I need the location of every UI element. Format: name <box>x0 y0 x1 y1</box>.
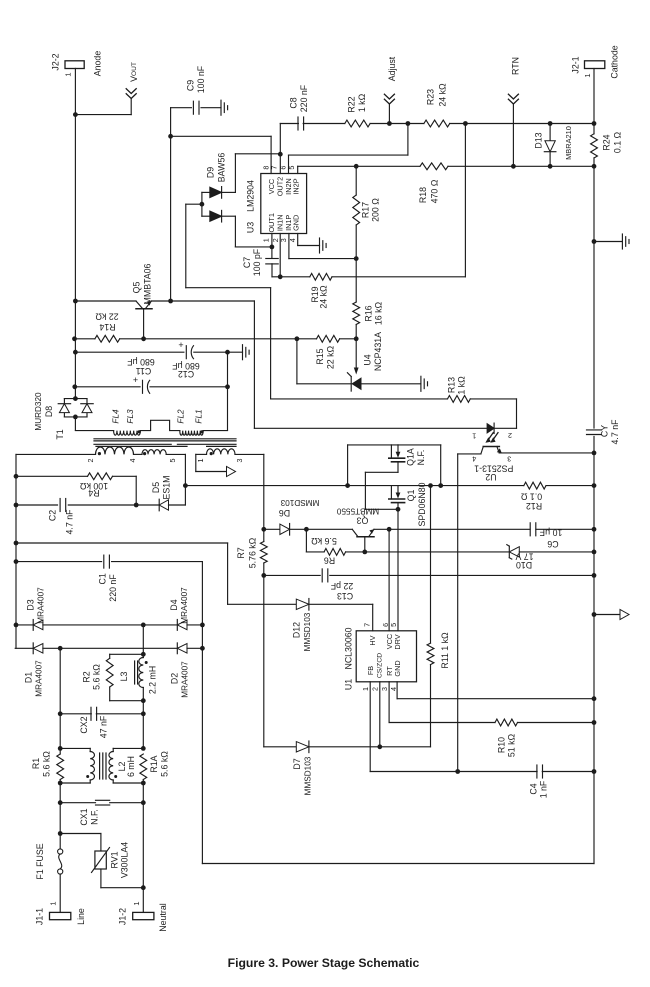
svg-text:FL3: FL3 <box>126 409 135 424</box>
svg-text:N.F.: N.F. <box>416 450 426 466</box>
svg-text:MMBT5550: MMBT5550 <box>336 507 379 516</box>
svg-text:1: 1 <box>361 687 370 691</box>
svg-text:BAW56: BAW56 <box>216 153 226 183</box>
svg-text:D5: D5 <box>151 482 161 493</box>
svg-text:D8: D8 <box>44 406 54 417</box>
svg-text:FL1: FL1 <box>195 409 204 423</box>
svg-text:4: 4 <box>128 459 137 463</box>
svg-text:D10: D10 <box>516 560 532 570</box>
svg-text:1: 1 <box>472 431 476 440</box>
svg-text:C2: C2 <box>48 510 58 521</box>
svg-text:Q3: Q3 <box>357 516 369 526</box>
svg-text:16 kΩ: 16 kΩ <box>373 301 383 325</box>
svg-text:5.6 kΩ: 5.6 kΩ <box>159 751 169 777</box>
svg-text:GND: GND <box>292 215 301 231</box>
svg-text:ES1M: ES1M <box>161 476 171 500</box>
svg-text:47 nF: 47 nF <box>99 715 109 738</box>
svg-text:1: 1 <box>261 238 270 242</box>
svg-text:CX2: CX2 <box>79 716 89 733</box>
svg-text:5: 5 <box>168 459 177 463</box>
svg-text:D13: D13 <box>534 132 544 148</box>
svg-text:100 pF: 100 pF <box>252 248 262 276</box>
svg-text:R1: R1 <box>31 758 41 769</box>
svg-text:1: 1 <box>64 72 73 76</box>
svg-text:Anode: Anode <box>93 51 103 77</box>
svg-text:4.7 nF: 4.7 nF <box>610 419 620 445</box>
svg-text:R6: R6 <box>324 556 335 566</box>
svg-text:22 pF: 22 pF <box>330 581 353 591</box>
svg-text:51 kΩ: 51 kΩ <box>507 733 517 757</box>
svg-text:Cathode: Cathode <box>610 45 620 78</box>
svg-text:10 μF: 10 μF <box>539 527 562 537</box>
svg-text:NCL30060: NCL30060 <box>344 627 354 669</box>
svg-text:F1 FUSE: F1 FUSE <box>35 843 45 879</box>
svg-text:22 kΩ: 22 kΩ <box>95 312 119 322</box>
svg-text:Q1A: Q1A <box>406 448 416 466</box>
svg-text:22 kΩ: 22 kΩ <box>326 345 336 369</box>
svg-text:CS/ZCD: CS/ZCD <box>376 653 383 678</box>
svg-text:D12: D12 <box>292 622 302 638</box>
svg-text:2: 2 <box>508 431 512 440</box>
svg-text:U2: U2 <box>485 472 496 482</box>
svg-text:D6: D6 <box>279 508 290 518</box>
svg-text:R15: R15 <box>315 348 325 364</box>
svg-text:680 μF: 680 μF <box>127 357 155 367</box>
svg-text:Q5: Q5 <box>132 282 142 294</box>
svg-text:6 mH: 6 mH <box>126 756 136 777</box>
svg-text:V300LA4: V300LA4 <box>120 842 130 878</box>
svg-text:FB: FB <box>366 666 375 675</box>
svg-text:220 nF: 220 nF <box>299 84 309 112</box>
svg-text:200 Ω: 200 Ω <box>371 198 381 222</box>
svg-text:24 kΩ: 24 kΩ <box>437 83 447 107</box>
svg-text:J1-2: J1-2 <box>118 908 128 925</box>
svg-text:J2-1: J2-1 <box>571 56 581 73</box>
svg-text:C13: C13 <box>337 591 353 601</box>
svg-text:5.6 kΩ: 5.6 kΩ <box>42 751 52 777</box>
svg-text:R22: R22 <box>347 96 357 112</box>
svg-text:7: 7 <box>270 166 279 170</box>
svg-text:5.6 kΩ: 5.6 kΩ <box>92 664 102 690</box>
svg-text:Line: Line <box>76 908 86 925</box>
svg-text:MBRA210: MBRA210 <box>564 126 573 160</box>
svg-text:N.F.: N.F. <box>90 809 100 825</box>
svg-text:MMSD103: MMSD103 <box>280 498 319 507</box>
svg-text:3: 3 <box>235 459 244 463</box>
svg-text:5: 5 <box>389 623 398 627</box>
svg-text:100 nF: 100 nF <box>196 65 206 93</box>
svg-text:220 nF: 220 nF <box>108 574 118 602</box>
svg-text:0.1 Ω: 0.1 Ω <box>520 492 542 502</box>
svg-text:D7: D7 <box>292 758 302 769</box>
svg-text:2: 2 <box>86 459 95 463</box>
svg-text:Neutral: Neutral <box>158 903 168 931</box>
svg-text:SPD06N80: SPD06N80 <box>417 482 427 526</box>
svg-text:+: + <box>178 340 183 350</box>
svg-text:CY: CY <box>600 425 610 437</box>
svg-text:5.6 kΩ: 5.6 kΩ <box>311 536 337 546</box>
svg-text:Q1: Q1 <box>406 490 416 502</box>
svg-text:RTN: RTN <box>511 57 521 75</box>
svg-text:HV: HV <box>368 635 377 645</box>
svg-text:1: 1 <box>49 901 58 905</box>
svg-text:MMBTA06: MMBTA06 <box>143 263 153 304</box>
svg-text:MRA4007: MRA4007 <box>35 660 44 697</box>
svg-text:R17: R17 <box>361 202 371 218</box>
svg-text:5.76 kΩ: 5.76 kΩ <box>248 537 258 568</box>
svg-text:D2: D2 <box>170 673 180 684</box>
svg-text:DRV: DRV <box>393 634 402 649</box>
svg-text:R23: R23 <box>426 89 436 105</box>
svg-text:C1: C1 <box>98 573 108 584</box>
svg-text:Figure 3. Power Stage Schemati: Figure 3. Power Stage Schematic <box>228 956 420 970</box>
svg-text:FL4: FL4 <box>112 409 121 424</box>
svg-text:R1A: R1A <box>149 755 159 772</box>
svg-text:3: 3 <box>507 454 511 463</box>
svg-text:MURD320: MURD320 <box>34 392 43 431</box>
svg-text:Adjust: Adjust <box>387 56 397 81</box>
svg-text:1 kΩ: 1 kΩ <box>357 93 367 112</box>
svg-text:R10: R10 <box>497 737 507 753</box>
svg-text:D3: D3 <box>26 599 36 610</box>
svg-text:MMSD103: MMSD103 <box>303 612 312 651</box>
svg-text:L3: L3 <box>119 672 129 682</box>
svg-text:4.7 nF: 4.7 nF <box>65 509 75 535</box>
svg-text:R24: R24 <box>602 134 612 150</box>
svg-text:D9: D9 <box>206 167 216 178</box>
svg-text:C4: C4 <box>529 783 539 794</box>
svg-text:1 kΩ: 1 kΩ <box>456 376 466 395</box>
svg-text:T1: T1 <box>55 429 65 439</box>
svg-text:4: 4 <box>472 454 476 463</box>
svg-text:2.2 mH: 2.2 mH <box>147 666 157 694</box>
svg-text:MRA4007: MRA4007 <box>180 587 189 624</box>
svg-text:R4: R4 <box>88 488 99 498</box>
svg-text:R16: R16 <box>364 305 374 321</box>
svg-text:MRA4007: MRA4007 <box>181 661 190 698</box>
svg-text:MRA4007: MRA4007 <box>37 587 46 624</box>
svg-text:J2-2: J2-2 <box>51 53 61 70</box>
svg-text:RV1: RV1 <box>110 851 120 868</box>
svg-text:5: 5 <box>287 166 296 170</box>
svg-text:1 nF: 1 nF <box>539 780 549 798</box>
svg-text:3: 3 <box>380 687 389 691</box>
svg-text:R13: R13 <box>446 377 456 393</box>
svg-text:D1: D1 <box>24 672 34 683</box>
svg-text:0.1 Ω: 0.1 Ω <box>613 131 623 153</box>
svg-text:C7: C7 <box>242 257 252 268</box>
svg-text:R18: R18 <box>418 187 428 203</box>
svg-text:C11: C11 <box>136 366 152 376</box>
svg-text:MMSD103: MMSD103 <box>304 756 313 795</box>
svg-text:R7: R7 <box>236 547 246 558</box>
svg-text:1: 1 <box>583 73 592 77</box>
svg-text:R2: R2 <box>82 671 92 682</box>
svg-text:U1: U1 <box>344 679 354 690</box>
svg-text:NCP431A: NCP431A <box>373 332 383 371</box>
svg-text:PS2513-1: PS2513-1 <box>474 464 513 474</box>
svg-text:IN2P: IN2P <box>292 178 301 194</box>
svg-text:7: 7 <box>363 623 372 627</box>
svg-text:D4: D4 <box>169 599 179 610</box>
svg-text:17 V: 17 V <box>515 552 533 562</box>
svg-text:C12: C12 <box>178 369 194 379</box>
svg-text:24 kΩ: 24 kΩ <box>318 285 328 309</box>
svg-text:U4: U4 <box>363 354 373 365</box>
svg-text:C6: C6 <box>547 539 558 549</box>
svg-text:2: 2 <box>371 687 380 691</box>
svg-text:J1-1: J1-1 <box>35 908 45 925</box>
svg-text:CX1: CX1 <box>79 808 89 825</box>
svg-text:1: 1 <box>132 901 141 905</box>
svg-text:FL2: FL2 <box>177 409 186 424</box>
svg-text:R12: R12 <box>526 501 542 511</box>
svg-text:R14: R14 <box>99 322 115 332</box>
svg-text:GND: GND <box>393 660 402 676</box>
svg-text:C9: C9 <box>186 80 196 91</box>
svg-text:LM2904: LM2904 <box>246 180 256 212</box>
svg-text:470 Ω: 470 Ω <box>429 179 439 203</box>
svg-text:C8: C8 <box>289 97 299 108</box>
svg-text:1: 1 <box>196 459 205 463</box>
svg-text:R11 1 kΩ: R11 1 kΩ <box>440 632 450 669</box>
svg-text:U3: U3 <box>246 222 256 233</box>
